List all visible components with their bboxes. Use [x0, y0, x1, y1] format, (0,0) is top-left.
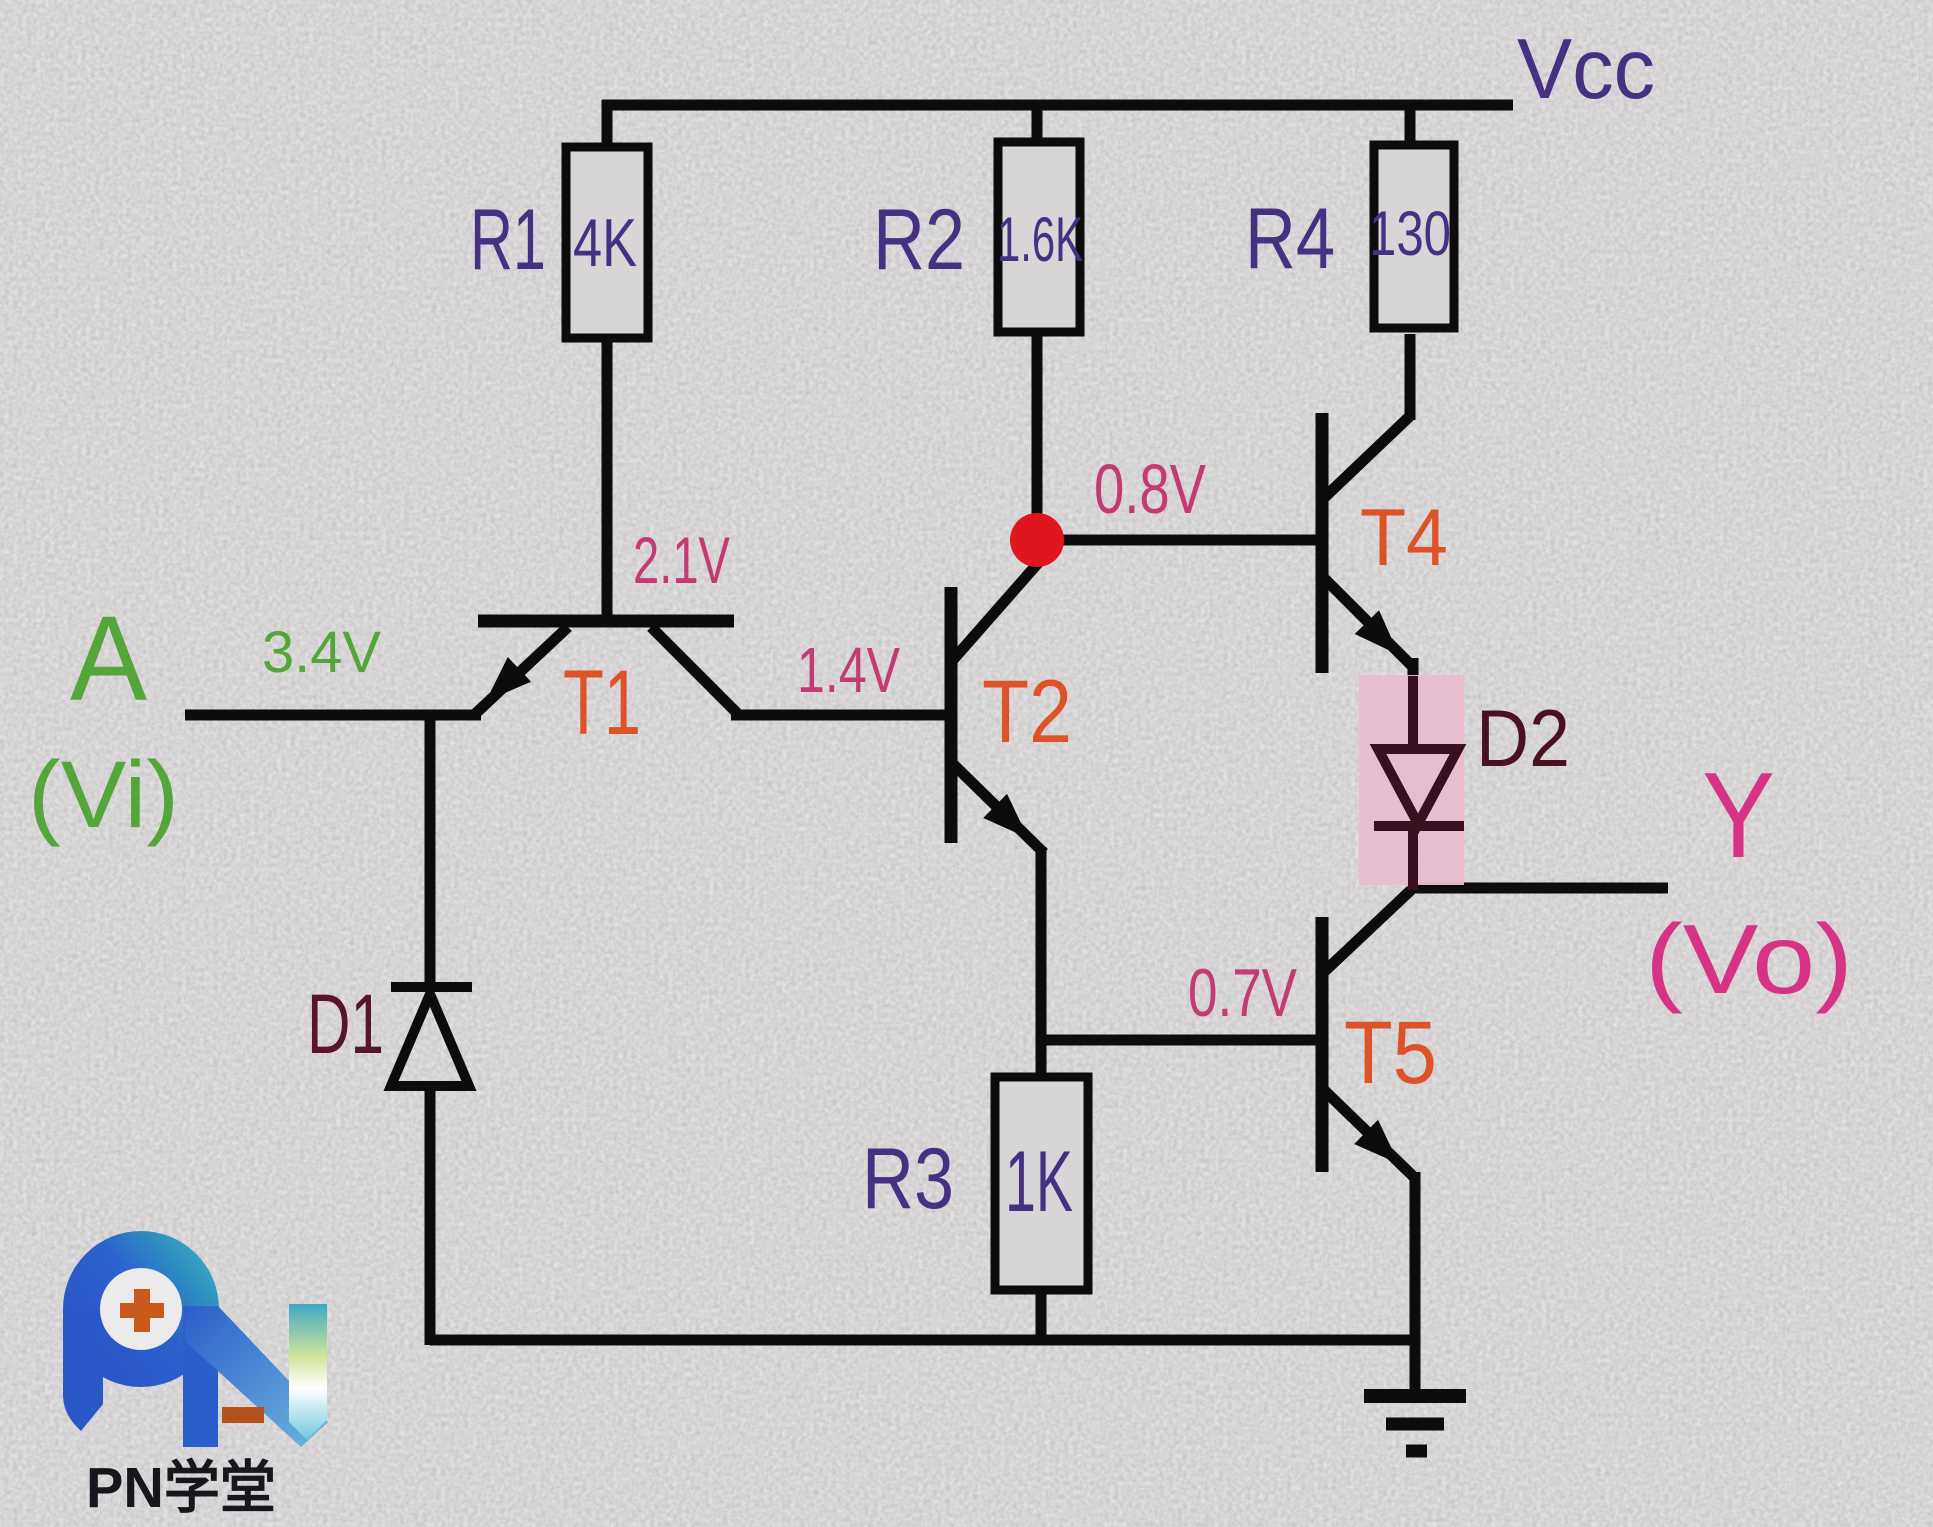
wire R1 top stub — [602, 100, 613, 160]
svg-text:1.4V: 1.4V — [797, 634, 900, 706]
svg-text:R3: R3 — [862, 1131, 954, 1227]
svg-text:T1: T1 — [563, 652, 641, 754]
diode D2 — [1374, 676, 1464, 890]
resistor R1 — [566, 147, 648, 338]
svg-text:1K: 1K — [1005, 1134, 1073, 1230]
svg-text:0.7V: 0.7V — [1188, 955, 1297, 1031]
logo plus — [120, 1289, 164, 1332]
wire D1 bottom — [425, 1088, 436, 1345]
svg-text:2.1V: 2.1V — [633, 523, 730, 597]
logo N — [183, 1306, 218, 1447]
diode D2 highlight — [1359, 675, 1464, 885]
wire R2 to node — [1032, 334, 1043, 540]
wire R4 top stub — [1405, 100, 1416, 158]
svg-text:(Vi): (Vi) — [28, 742, 179, 848]
svg-text:D2: D2 — [1476, 694, 1570, 784]
wire bottom rail — [430, 1335, 1420, 1346]
wire T2 emitter diagonal — [952, 763, 1044, 853]
wire output Y — [1411, 883, 1668, 894]
svg-text:4K: 4K — [573, 205, 637, 281]
wire T4 emitter to D2 — [1408, 658, 1419, 680]
wire T5 emitter to ground rail — [1410, 1172, 1421, 1345]
svg-text:Vcc: Vcc — [1517, 22, 1655, 117]
svg-text:T4: T4 — [1360, 493, 1448, 583]
svg-text:T5: T5 — [1344, 1002, 1437, 1102]
svg-text:130: 130 — [1369, 199, 1451, 269]
svg-text:PN学堂: PN学堂 — [86, 1456, 276, 1520]
svg-text:1.6K: 1.6K — [997, 205, 1083, 275]
wire R1 to T1 collector — [602, 338, 613, 627]
wire T1 collector diagonal — [651, 627, 737, 713]
transistor T2 emitter arrow — [983, 794, 1028, 838]
wire T2 emitter down to R3 — [1036, 847, 1047, 1081]
wire T4 emitter diagonal — [1325, 579, 1413, 667]
svg-text:D1: D1 — [307, 977, 384, 1071]
wire T5 collector diagonal — [1325, 890, 1411, 971]
svg-text:R2: R2 — [873, 192, 965, 288]
wire input A — [185, 710, 481, 721]
wire R2 top stub — [1032, 100, 1043, 160]
logo minus — [222, 1407, 264, 1423]
diode D1 — [391, 987, 472, 1086]
node junction red dot — [1010, 513, 1064, 567]
resistor R3 — [995, 1077, 1088, 1290]
transistor T5 emitter arrow — [1354, 1120, 1399, 1164]
ground — [1364, 1396, 1466, 1451]
wire T2 collector diagonal — [952, 562, 1039, 661]
resistor R4 — [1374, 145, 1454, 328]
wire T4 base bar — [1316, 413, 1329, 673]
svg-text:R1: R1 — [470, 192, 546, 288]
logo PN mark — [63, 1231, 328, 1520]
wire T1 to T2 base — [731, 710, 951, 721]
svg-text:T2: T2 — [982, 661, 1072, 761]
resistor R2 — [998, 142, 1080, 332]
wire T1 base bar — [478, 615, 734, 628]
wire T5 emitter diagonal — [1325, 1091, 1416, 1179]
wire T1 emitter diagonal — [474, 627, 568, 715]
svg-text:0.8V: 0.8V — [1094, 450, 1206, 528]
svg-text:(Vo): (Vo) — [1645, 904, 1853, 1014]
logo P leg — [63, 1308, 103, 1431]
svg-text:A: A — [70, 590, 147, 726]
wire node to T4 base — [1033, 535, 1322, 546]
wire T5 base bar — [1316, 917, 1329, 1172]
logo P ring — [63, 1231, 219, 1387]
svg-text:R4: R4 — [1245, 191, 1335, 287]
svg-text:Y: Y — [1702, 747, 1775, 883]
transistor T4 emitter arrow — [1355, 610, 1399, 655]
wire ground stub — [1410, 1340, 1421, 1392]
wire Vcc rail — [602, 100, 1513, 111]
transistor T1 emitter arrow — [486, 657, 531, 701]
wire input down to D1 — [425, 710, 436, 986]
wire T4 collector to R4 — [1405, 334, 1416, 420]
wire T2 base bar — [945, 587, 958, 843]
wire T4 collector diagonal — [1325, 415, 1411, 497]
svg-text:3.4V: 3.4V — [262, 620, 381, 685]
wire T5 base — [1036, 1035, 1322, 1046]
wire R3 bottom — [1036, 1288, 1047, 1345]
